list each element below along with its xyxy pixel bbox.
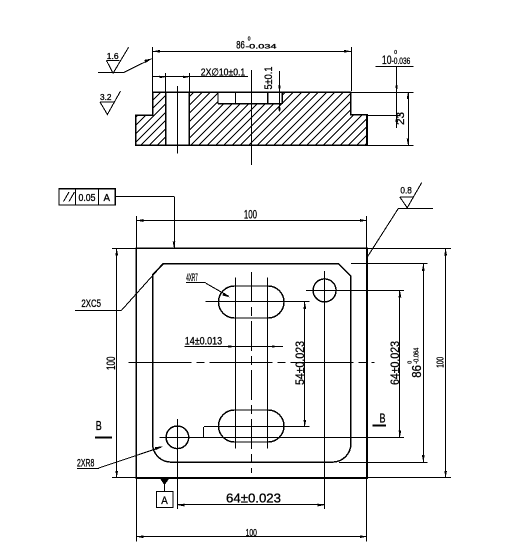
surface finish 1.6 leader arrow — [144, 58, 152, 63]
part centerline — [251, 70, 253, 165]
channel line left — [235, 278, 237, 449]
svg-text:86: 86 — [236, 40, 245, 52]
svg-text:14±0.013: 14±0.013 — [185, 335, 223, 347]
svg-text:54±0.023: 54±0.023 — [293, 341, 307, 385]
label 4XR7 arrow — [222, 293, 230, 298]
dim 2X d10 ext left — [165, 73, 167, 92]
dim 86 top: extension left — [152, 47, 154, 92]
channel wall line right — [267, 92, 269, 104]
section mark B left — [95, 436, 112, 438]
dim 100 bottom: dimension line — [136, 536, 367, 538]
dim 86 right: ext top — [351, 263, 428, 265]
datum A box — [157, 492, 174, 508]
dim 10 arrow top (points down) — [395, 86, 398, 93]
svg-text:23: 23 — [395, 112, 407, 125]
svg-text:A: A — [161, 495, 168, 507]
dim 86 right: ext bottom — [339, 462, 427, 464]
step extension line right — [367, 115, 401, 117]
label 2XR8 underline — [77, 468, 99, 470]
dim 86 top: dimension line — [153, 51, 351, 53]
surface finish 0.8 shelf — [398, 208, 433, 210]
svg-text:A: A — [104, 192, 111, 204]
dim 86 right arrows — [422, 264, 425, 271]
label 4XR7 underline — [186, 282, 206, 284]
svg-text:2XR8: 2XR8 — [77, 457, 94, 469]
datum A stem — [164, 485, 166, 491]
groove left edge — [217, 92, 219, 104]
dim 5 arrow bottom — [278, 104, 281, 111]
dim 54: dimension line — [304, 302, 306, 427]
section body outline — [136, 92, 367, 145]
top surface extension to right — [351, 92, 414, 94]
svg-text:0: 0 — [248, 36, 251, 42]
dim 64 bottom: ext left — [177, 450, 179, 509]
dim 86 top: extension right — [351, 47, 353, 91]
svg-text:0: 0 — [407, 361, 413, 364]
dim 10 arrow bottom (points up) — [395, 115, 398, 122]
svg-text:10: 10 — [382, 53, 392, 67]
dim 10 dimension line — [396, 67, 398, 128]
svg-text:64±0.023: 64±0.023 — [226, 492, 281, 506]
dim 14 arrow left (outside) — [229, 345, 236, 348]
hole circle bottom-left — [166, 426, 189, 449]
horizontal centerline (dashed) — [128, 362, 374, 364]
surface finish 0.8 leader — [367, 209, 398, 258]
dim 2X d10 ext right — [189, 73, 191, 92]
circle BL vertical centerline — [177, 419, 179, 509]
surface finish 1.6 leader underline — [98, 72, 123, 74]
circle BL horizontal centerline — [159, 437, 404, 439]
inner contour with chamfers and R8 corners — [153, 264, 351, 462]
hole left edge — [165, 92, 167, 145]
vertical centerline (dashed) — [251, 272, 253, 473]
channel line right — [267, 278, 269, 449]
svg-text:0.8: 0.8 — [400, 185, 411, 196]
dim 64 right arrows — [399, 290, 402, 297]
dim 100 right arrows — [444, 248, 447, 255]
dim 64 bottom: ext right (from circle TR) — [324, 303, 326, 509]
svg-text:B: B — [380, 411, 386, 425]
svg-text:5±0.1: 5±0.1 — [263, 67, 275, 90]
dim 100 right: ext top — [367, 248, 451, 250]
dim 5 +-0.1 dimension line — [279, 71, 281, 112]
outer square — [136, 248, 367, 478]
parallelism leader arrow — [173, 241, 176, 248]
dim 86 right text (vertical, with tolerance) — [407, 348, 424, 378]
datum A triangle — [160, 479, 169, 485]
parallelism leader vertical — [174, 196, 176, 248]
surface finish 3.2 symbol — [100, 91, 121, 114]
channel wall line left — [235, 92, 237, 104]
label 4XR7 leader — [206, 283, 229, 296]
section mark B right — [373, 425, 386, 427]
svg-text:-0.064: -0.064 — [414, 348, 421, 364]
surface finish 1.6 symbol — [107, 47, 129, 73]
dim 100 top: dimension line — [136, 220, 367, 222]
dim 64 bottom arrows — [177, 504, 184, 507]
dim 86 right: dimension line — [423, 264, 425, 462]
slot stadium top — [219, 286, 285, 318]
dim 86 arrow left — [153, 50, 160, 53]
surface finish 1.6 leader — [123, 59, 151, 73]
svg-text:2X∅10±0.1: 2X∅10±0.1 — [201, 67, 246, 78]
svg-text:100: 100 — [244, 208, 257, 222]
svg-text:64±0.023: 64±0.023 — [388, 341, 402, 385]
dim 2X d10 arrow 2 — [183, 76, 189, 79]
hole circle top-right — [313, 279, 336, 302]
dim 10 shelf line — [375, 66, 413, 68]
dim 5 arrow top — [278, 86, 281, 93]
dim 100 left: dimension line — [116, 248, 118, 478]
dim 100 bottom: ext left — [136, 478, 138, 542]
dim 100 right: ext bottom — [367, 477, 451, 479]
dim 54 arrows — [303, 302, 306, 309]
parallelism symbol — [64, 192, 75, 202]
svg-text:3.2: 3.2 — [100, 92, 112, 102]
svg-text:0.05: 0.05 — [79, 192, 96, 204]
slot stadium bottom — [219, 410, 285, 442]
hatched body region — [78, 80, 430, 150]
dim 14: dimension line — [185, 346, 283, 348]
bottom edge extension right — [367, 145, 414, 147]
stadium top centerline — [206, 301, 310, 303]
dim 64 right: dimension line — [399, 290, 401, 437]
svg-text:86: 86 — [410, 365, 424, 378]
circle TR horizontal centerline — [306, 290, 404, 292]
dim 2X d10 arrow 1 — [160, 76, 166, 79]
dim 23 arrow top — [407, 92, 410, 99]
svg-text:100: 100 — [104, 356, 118, 370]
label 2XR8 arrow — [155, 447, 163, 451]
hole centerline — [177, 86, 179, 153]
parallelism feature control frame — [59, 189, 115, 205]
surface finish 0.8 symbol — [400, 183, 422, 208]
dim 100 left: ext bottom — [112, 477, 136, 479]
dim 64 bottom: dimension line — [177, 504, 324, 506]
svg-text:100: 100 — [436, 357, 447, 368]
dim 100 right: dimension line — [445, 248, 447, 478]
dim 100 bottom: ext right — [366, 478, 368, 542]
groove bottom — [218, 103, 282, 105]
groove right edge — [281, 92, 283, 104]
label 2XC5 underline — [75, 310, 121, 312]
label 2XR8 leader — [99, 447, 161, 468]
dim 100 left: ext top — [112, 248, 136, 250]
dim 86 arrow right — [344, 50, 351, 53]
label 2XC5 leader (chamfer extension) — [121, 264, 163, 311]
svg-text:2XC5: 2XC5 — [81, 298, 101, 310]
svg-text:100: 100 — [246, 527, 257, 539]
dim 100 top: ext left — [136, 216, 138, 248]
svg-text:B: B — [96, 419, 102, 433]
dim 23 arrow bottom — [407, 139, 410, 146]
dim 100 top arrows — [136, 219, 143, 222]
dim 23 dimension line — [408, 92, 410, 145]
dim 2X d10 dimension line — [153, 76, 248, 78]
section step vertical — [203, 427, 205, 438]
circle TR vertical centerline — [324, 271, 326, 509]
svg-text:-0.034: -0.034 — [246, 44, 278, 51]
parallelism leader horizontal — [115, 196, 174, 198]
stadium bottom centerline / section line — [204, 426, 310, 428]
svg-text:-0.036: -0.036 — [392, 56, 411, 66]
dim 100 top: ext right — [366, 216, 368, 248]
dim 100 bottom arrows — [136, 535, 143, 538]
svg-text:1.6: 1.6 — [107, 51, 119, 61]
dim 14 arrow right (outside) — [268, 345, 275, 348]
dim 100 left arrows — [115, 248, 118, 255]
hole right edge — [188, 92, 190, 145]
